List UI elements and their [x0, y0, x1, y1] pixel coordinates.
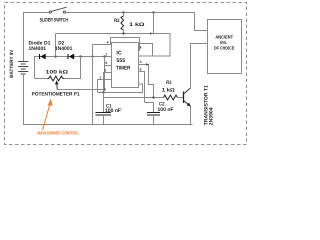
- diode D2 1N4001: [55, 41, 74, 60]
- diode D1 1N4001: [29, 41, 51, 60]
- wire D2 branch down to pot right end: [63, 57, 80, 79]
- node diode row at x104.5: [103, 55, 105, 57]
- dashed page border: [5, 3, 247, 145]
- wire pin8 jog: [140, 44, 153, 57]
- svg-text:1: 1: [99, 75, 101, 79]
- svg-text:6: 6: [105, 61, 107, 65]
- wire pin5 drop to C2 top: [145, 102, 154, 104]
- resistor R2 1k: [114, 13, 144, 34]
- node C1 riser on y92.6 wire: [102, 91, 104, 93]
- svg-text:MAIN DIMMER CONTROL: MAIN DIMMER CONTROL: [37, 131, 79, 136]
- svg-text:BATTERY 9V: BATTERY 9V: [9, 49, 14, 78]
- pin 1 stub: [98, 80, 112, 93]
- wire emitter down to ground rail: [190, 106, 192, 124]
- wire riser junction to R2-bottom wire: [55, 34, 57, 57]
- wire diode row y57: [35, 57, 112, 79]
- svg-text:2N3904: 2N3904: [209, 107, 215, 125]
- capacitor C1 100nF: [96, 93, 122, 125]
- IC U1 555 timer body: [112, 43, 139, 88]
- svg-text:EVIL: EVIL: [220, 40, 227, 45]
- svg-text:1 kΩ: 1 kΩ: [162, 88, 175, 94]
- node pin3 drop joining R3 wire: [152, 96, 154, 98]
- svg-text:POTENTIOMETER P1: POTENTIOMETER P1: [32, 92, 80, 98]
- wire V+ loop to right-side pin: [139, 34, 171, 57]
- svg-text:SLIDER SWITCH: SLIDER SWITCH: [40, 17, 69, 23]
- junction arrow into V+ node: [150, 32, 153, 34]
- node D2 right branch to pot: [79, 55, 81, 57]
- potentiometer P1 100k: [32, 70, 80, 98]
- wire top loop y44 to pin4 drop: [93, 38, 111, 45]
- pot wiper arrow: [56, 83, 58, 90]
- svg-text:2: 2: [104, 68, 106, 72]
- wire collector up to load box left edge: [191, 44, 208, 89]
- node R2 bottom: [122, 32, 124, 34]
- node R2 top junction: [122, 11, 124, 13]
- wire wiper to pin6 drop: [57, 89, 104, 91]
- svg-text:TIMER: TIMER: [116, 65, 131, 71]
- resistor R3 1k: [162, 80, 178, 100]
- wire R3 to base: [177, 97, 183, 99]
- svg-text:100 nF: 100 nF: [158, 107, 174, 113]
- wire pin7 horizontal y33.5: [56, 33, 154, 35]
- wire top rail from switch to step into load box: [65, 13, 207, 31]
- svg-text:IC: IC: [116, 51, 121, 57]
- svg-text:555: 555: [116, 58, 125, 64]
- pin 3 stub with output arrow: [139, 65, 154, 98]
- svg-text:7: 7: [105, 53, 107, 57]
- node diode junction to pin7 riser: [54, 55, 56, 57]
- wire V+ vertical down to y37 wire over IC: [153, 13, 155, 34]
- svg-text:OF CHOICE: OF CHOICE: [214, 45, 235, 50]
- wire pin4/pin8 link y37.5: [111, 38, 140, 51]
- capacitor C2 100nF: [147, 101, 174, 124]
- svg-text:100 kΩ: 100 kΩ: [46, 70, 68, 76]
- pin gnd-right stub to y92.6 wire: [98, 84, 143, 93]
- wire battery+ up to top rail and to switch: [24, 13, 50, 62]
- svg-text:R2: R2: [114, 18, 120, 24]
- pin 6 stub: [105, 65, 112, 67]
- svg-text:ANCIENT: ANCIENT: [215, 35, 233, 40]
- pin 2 stub: [104, 73, 112, 98]
- node wiper/pin6 junction: [103, 88, 105, 90]
- svg-text:5: 5: [140, 67, 142, 71]
- node V+ branch junction: [152, 11, 154, 13]
- svg-text:1N4001: 1N4001: [29, 46, 47, 52]
- node diode row at x92: [91, 55, 93, 57]
- svg-text:1 kΩ: 1 kΩ: [129, 22, 144, 28]
- svg-text:3: 3: [140, 60, 142, 64]
- svg-text:8: 8: [140, 46, 142, 50]
- svg-text:1N4001: 1N4001: [55, 46, 73, 52]
- svg-text:R3: R3: [166, 80, 172, 86]
- svg-text:4: 4: [107, 40, 109, 44]
- svg-text:100 nF: 100 nF: [105, 108, 121, 114]
- wire battery negative down to ground rail: [24, 74, 193, 125]
- transistor T1 2N3904: [184, 85, 215, 125]
- wire long drop x92 to ground rail: [92, 45, 94, 125]
- slider switch: [49, 11, 51, 13]
- battery B1 9V: [18, 62, 28, 75]
- annotation: main dimmer control arrow (orange): [37, 99, 79, 136]
- pin 5 stub: [139, 72, 145, 103]
- load box: ancient evil of choice: [208, 20, 242, 74]
- wire pin6 drop to wiper wire: [104, 57, 106, 90]
- wire C1/pin2 node across to R3: [104, 97, 164, 99]
